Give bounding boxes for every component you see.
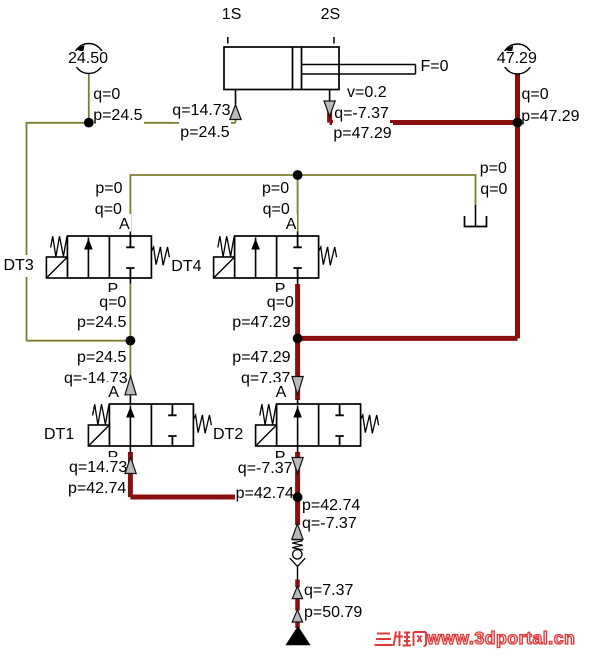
wire gauge1 stem (olive) [88,74,90,123]
wire tank net p=0 horizontal with drops to DT3, DT4, tank (olive) [130,175,475,232]
solenoid of DT1 [88,425,109,446]
flow arrow DT2 top (down) [292,377,303,396]
wire stub: check valve to arrow (black) [297,566,299,580]
valve DT3 flow-path arrow [84,238,93,279]
check valve seat [290,558,305,566]
node p=47.29 junction at right gauge [513,118,523,128]
spring (right, return) of DT2 [361,415,379,433]
solenoid of DT3 [46,257,67,278]
valve DT2 flow-path arrow [293,406,302,447]
node 2S position mark [333,37,335,44]
flow arrow below check valve (up) [292,586,302,598]
flow arrow DT2 bottom (down) [292,458,303,474]
wire node24.5: cylinder-left-port to junction, left run and left drop to lower junction [27,110,236,341]
spring (left) of DT4 [218,236,234,257]
wire cylinder right port down and across to right gauge junction (red) [330,107,518,123]
valve DT2 2/2-way solenoid valve body [277,404,361,446]
valve DT4 blocked-port symbols [293,236,301,278]
flow arrow above pump (up) [292,610,302,622]
flow arrow at cylinder left port (up) [230,105,241,120]
wire DT1 bottom port down and across to pump junction (red) [130,452,297,497]
valve DT4 flow-path arrow [251,238,260,279]
spring (left) of DT3 [51,236,67,257]
node 1S position mark [227,37,229,44]
valve DT2 blocked-port symbols [335,404,343,446]
solenoid of DT2 [256,425,277,446]
wire stubs: cylinder ports (black) [236,90,330,105]
pump pressure source triangle [286,627,309,645]
spring (right, return) of DT1 [193,415,211,433]
node p=24.5 junction at left gauge [84,118,94,128]
wire check valve to pump segments (red) [295,580,300,629]
wire right gauge stem down right side and across to DT4 bottom junction (red) [298,75,518,339]
valve DT3 2/2-way solenoid valve body [67,236,151,278]
wire junction to DT1 top port (olive) [129,341,131,378]
wire stubs: DT4 ports (black) [297,232,299,285]
spring (left) of DT1 [93,404,109,425]
flow arrow DT1 top (up) [125,376,136,395]
flow arrow above check valve (up) [292,524,303,540]
wire junction to DT2 top port (red) [295,338,300,400]
wire stubs: DT2 ports (black) [297,399,299,453]
tank (reservoir) [465,216,487,227]
check valve spring [292,541,303,550]
check valve ball [293,550,302,559]
valve DT1 flow-path arrow [126,406,135,447]
flow arrow DT1 bottom (up) [125,457,136,473]
wire stubs: DT1 ports (black) [129,396,131,453]
wire DT3 bottom port to junction (olive) [129,283,131,341]
wire DT4 bottom port to junction (red) [295,284,300,338]
gauge rotation-meter 24.50 [74,44,104,74]
spring (left) of DT2 [260,404,276,425]
solenoid of DT4 [214,257,235,278]
wire stubs: DT3 ports (black) [129,232,131,284]
wire stub: tank stem (black) [475,205,477,226]
valve DT3 blocked-port symbols [126,236,134,278]
cylinder (double-acting) body [224,47,416,90]
spring (right, return) of DT3 [151,247,169,265]
valve DT1 blocked-port symbols [168,404,176,446]
node p=42.74 junction above check valve [293,492,303,502]
node p=0 junction above DT4 [293,170,303,180]
valve DT4 2/2-way solenoid valve body [235,236,319,278]
wire DT2 bottom port through junction down to check valve (red) [295,452,300,525]
gauge rotation-meter 47.29 [503,44,533,74]
flow arrow at cylinder right port (down) [324,101,335,117]
node p=47.29 junction between DT4 and DT2 [293,334,303,344]
spring (right, return) of DT4 [319,247,337,265]
valve DT1 2/2-way solenoid valve body [109,404,193,446]
node p=24.5 junction between DT3 and DT1 [125,336,135,346]
